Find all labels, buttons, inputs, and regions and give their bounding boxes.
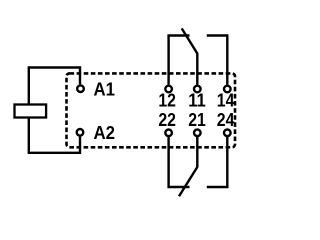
svg-text:A1: A1 [94, 80, 116, 100]
svg-text:11: 11 [188, 90, 206, 110]
svg-text:12: 12 [158, 90, 176, 110]
svg-text:21: 21 [188, 110, 206, 130]
svg-text:22: 22 [158, 110, 176, 130]
svg-text:24: 24 [217, 110, 235, 130]
svg-text:14: 14 [217, 90, 235, 110]
svg-text:A2: A2 [94, 123, 116, 143]
